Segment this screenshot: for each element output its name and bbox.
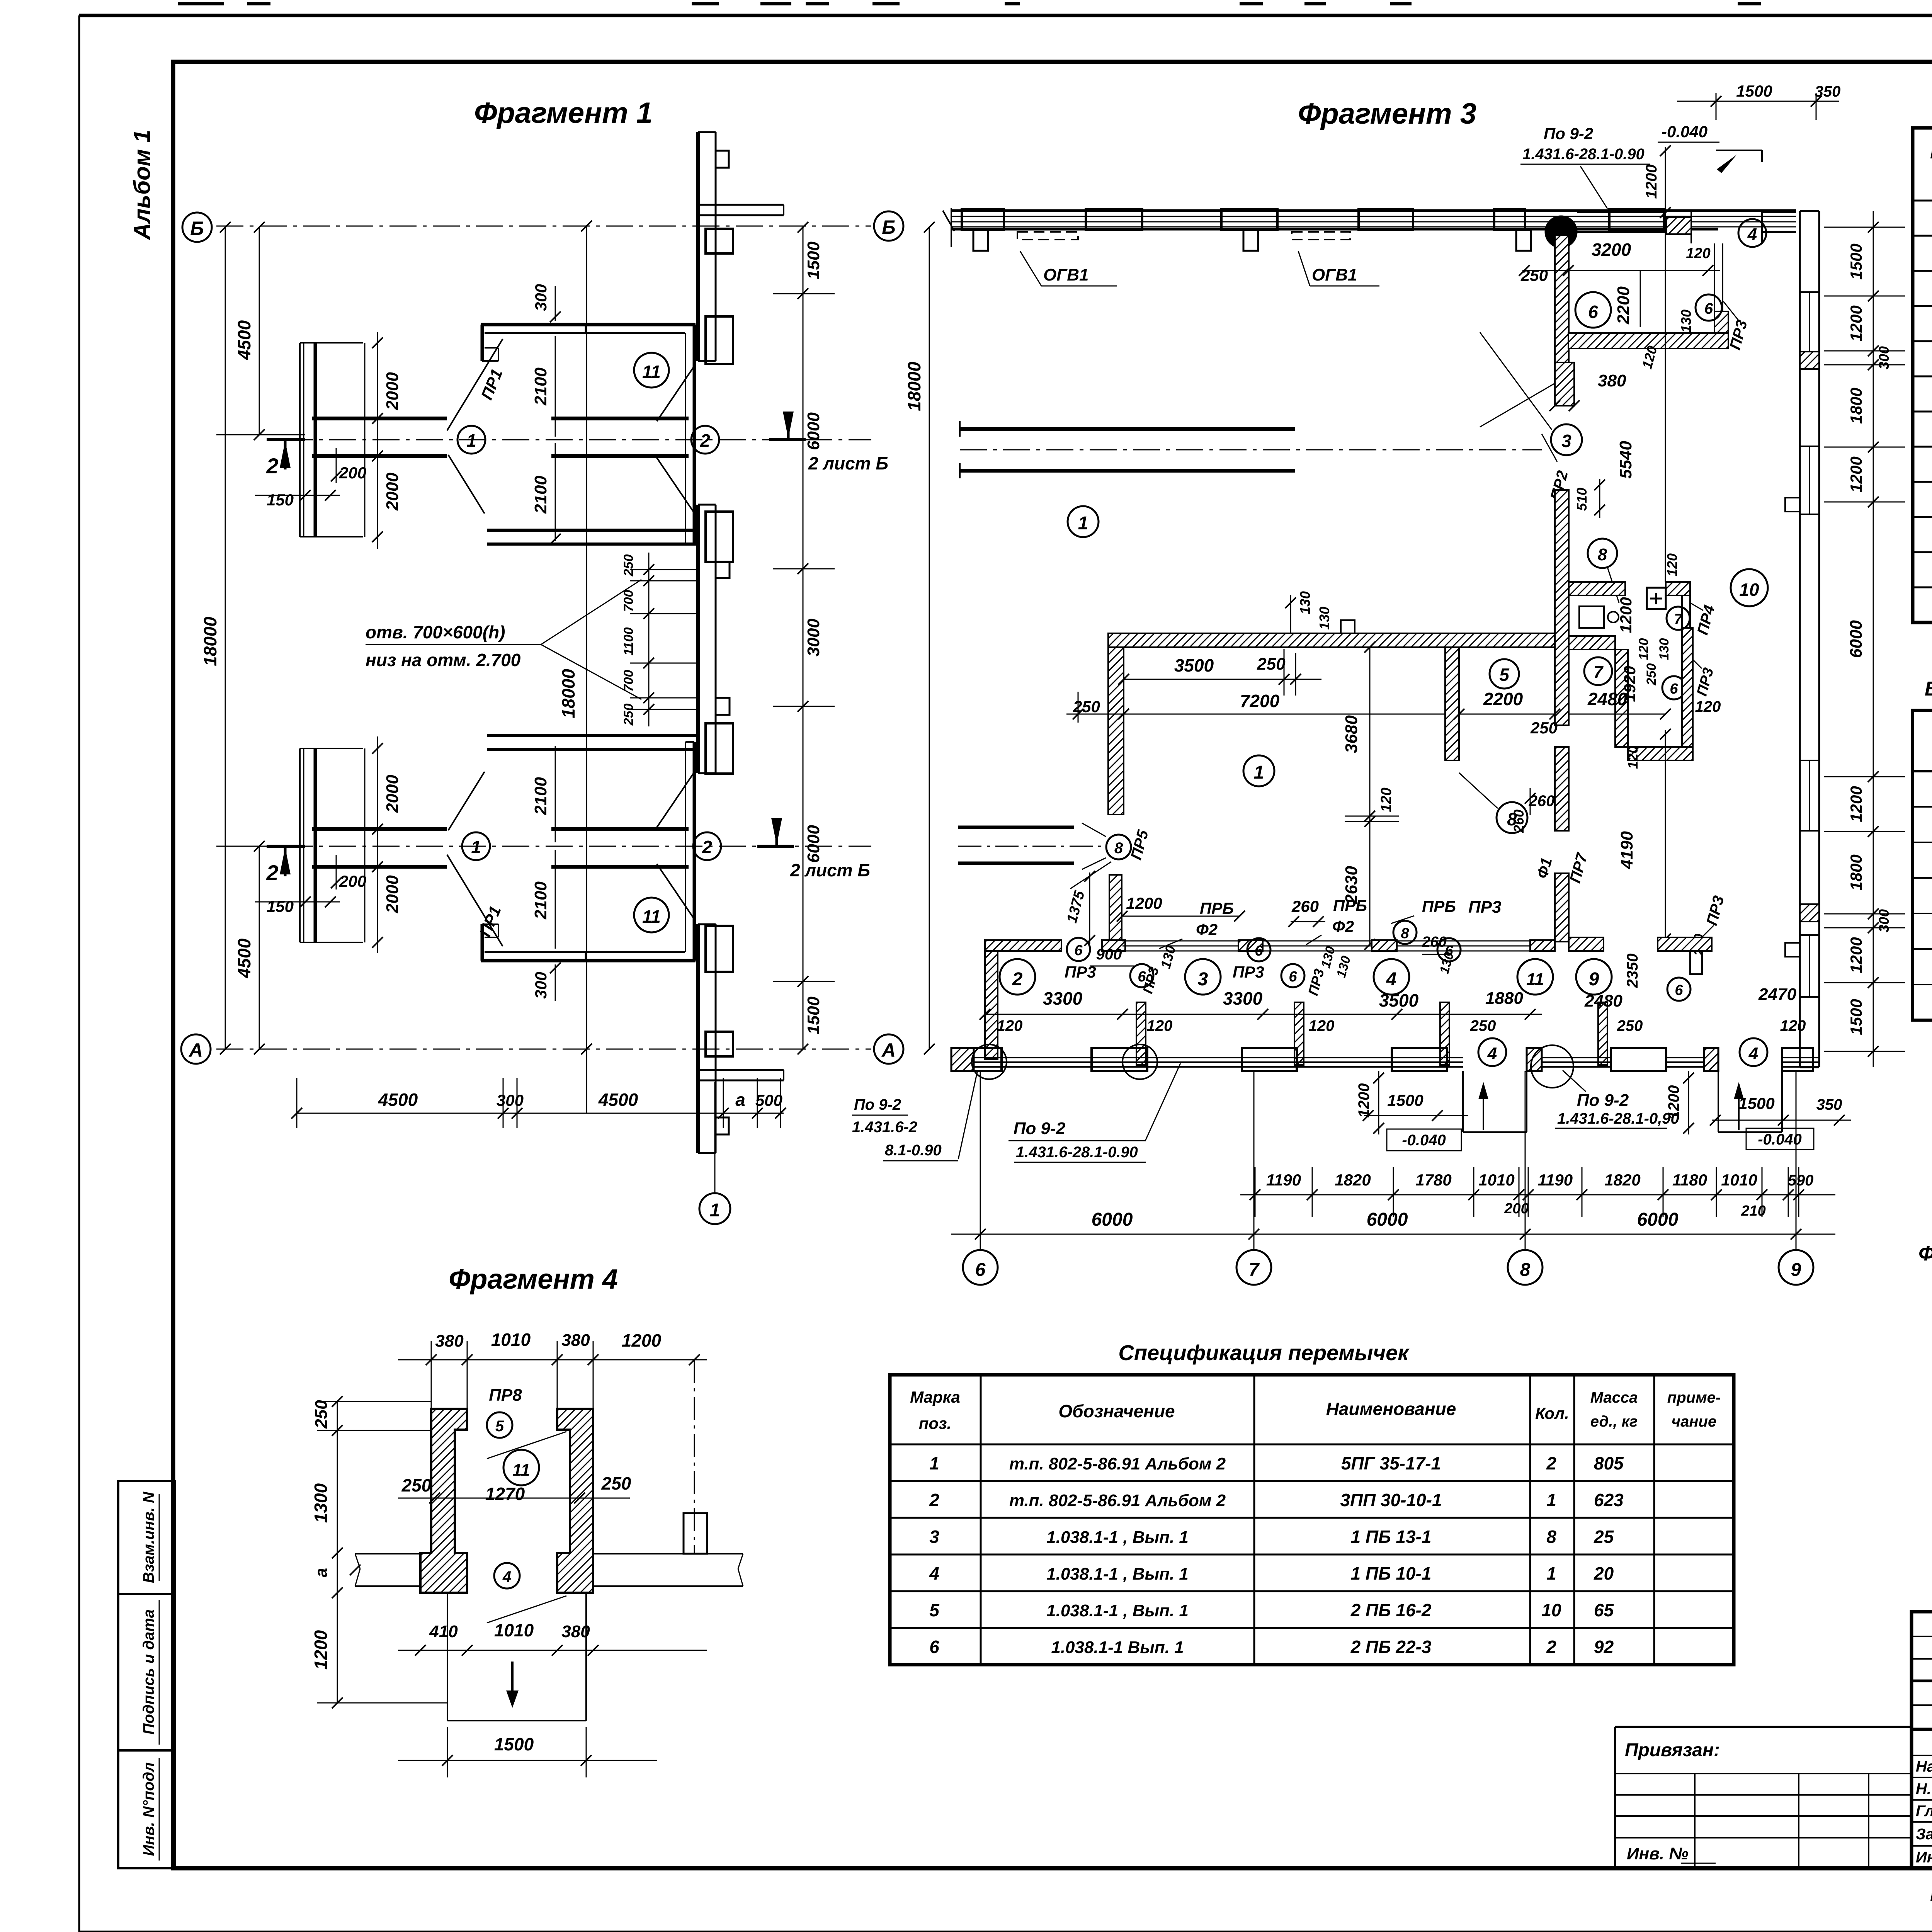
svg-text:120: 120 bbox=[1686, 245, 1710, 262]
bottom dim line 2 fragment 3 bbox=[951, 1209, 1835, 1240]
dim stack 250-700-1100-700-250 bbox=[621, 553, 698, 726]
svg-text:1: 1 bbox=[1254, 762, 1264, 783]
corridor walls axis 3 bbox=[960, 421, 1295, 478]
svg-text:18000: 18000 bbox=[904, 362, 924, 411]
leader По 9-2 bottom mid bbox=[1555, 1070, 1679, 1128]
svg-text:2 ПБ 22-3: 2 ПБ 22-3 bbox=[1350, 1637, 1432, 1657]
svg-text:1270: 1270 bbox=[485, 1484, 525, 1504]
svg-text:3500: 3500 bbox=[1379, 990, 1419, 1010]
wall left exterior bottom unit bbox=[300, 748, 363, 942]
svg-text:6: 6 bbox=[929, 1637, 939, 1657]
svg-text:11: 11 bbox=[512, 1461, 530, 1480]
svg-text:120: 120 bbox=[1625, 746, 1641, 769]
svg-text:ОГВ1: ОГВ1 bbox=[1043, 265, 1088, 284]
svg-text:1100: 1100 bbox=[621, 627, 636, 655]
svg-text:6: 6 bbox=[1675, 982, 1683, 998]
svg-text:Б: Б bbox=[882, 216, 895, 238]
svg-text:380: 380 bbox=[561, 1331, 590, 1350]
dim 1200 rotated top right bbox=[1643, 145, 1671, 218]
dim 4500 top left bbox=[216, 222, 305, 440]
svg-text:Фрагмент 4: Фрагмент 4 bbox=[449, 1264, 618, 1295]
svg-text:9: 9 bbox=[1791, 1260, 1801, 1280]
dim 3500 250 room 1 bbox=[1118, 649, 1321, 696]
room 3 circle bbox=[1185, 959, 1221, 995]
frag4 left pier bbox=[420, 1409, 467, 1593]
svg-text:2480: 2480 bbox=[1584, 992, 1622, 1010]
svg-text:4190: 4190 bbox=[1617, 831, 1636, 869]
svg-text:250: 250 bbox=[1470, 1017, 1496, 1034]
room 6 top door jamb bbox=[1667, 217, 1723, 311]
svg-text:3000: 3000 bbox=[804, 619, 823, 656]
svg-text:4500: 4500 bbox=[378, 1090, 418, 1110]
svg-text:7200: 7200 bbox=[1240, 691, 1280, 711]
svg-text:9: 9 bbox=[1589, 969, 1599, 990]
dim 3200 120 room 6 bbox=[1519, 240, 1720, 284]
label cluster ПР3 260 130 right bbox=[1422, 898, 1501, 975]
frag4 label ПР8 bbox=[489, 1386, 522, 1405]
svg-text:1200: 1200 bbox=[1355, 1083, 1372, 1118]
svg-text:250: 250 bbox=[312, 1400, 331, 1429]
svg-text:7: 7 bbox=[1594, 663, 1604, 682]
fragment 3 title bbox=[1298, 97, 1476, 130]
svg-text:1.431.6-28.1-0.90: 1.431.6-28.1-0.90 bbox=[1016, 1144, 1138, 1161]
svg-text:2100: 2100 bbox=[531, 367, 550, 406]
svg-text:2470: 2470 bbox=[1758, 985, 1796, 1004]
central vertical wall middle bbox=[1555, 490, 1569, 725]
leader text отв 700x600 bbox=[366, 580, 641, 699]
room 5 circle bbox=[1490, 659, 1519, 689]
svg-text:1880: 1880 bbox=[1485, 989, 1523, 1008]
central vertical wall upper bbox=[1555, 235, 1569, 383]
svg-text:2 лист Б: 2 лист Б bbox=[790, 860, 870, 880]
axis B line bbox=[216, 226, 871, 227]
bottom dim line fragment 1 bbox=[291, 1078, 786, 1128]
dim 4500 bottom left bbox=[216, 841, 305, 1054]
svg-text:2200: 2200 bbox=[1614, 286, 1633, 325]
svg-text:8: 8 bbox=[1598, 545, 1607, 564]
svg-text:2000: 2000 bbox=[383, 775, 402, 813]
svg-text:3300: 3300 bbox=[1043, 988, 1083, 1009]
room circle 1 upper bbox=[1068, 506, 1099, 537]
svg-text:4500: 4500 bbox=[598, 1090, 638, 1110]
svg-text:Ф2: Ф2 bbox=[1196, 920, 1218, 939]
svg-text:11: 11 bbox=[642, 906, 661, 927]
svg-text:2: 2 bbox=[266, 861, 278, 885]
svg-text:120: 120 bbox=[1664, 553, 1680, 577]
svg-text:8: 8 bbox=[1546, 1527, 1556, 1547]
svg-text:5540: 5540 bbox=[1616, 441, 1635, 479]
svg-text:2: 2 bbox=[1012, 969, 1023, 990]
dim line 2000/2000 top unit bbox=[365, 332, 402, 549]
svg-text:1200: 1200 bbox=[1847, 456, 1865, 492]
svg-text:1500: 1500 bbox=[1847, 999, 1865, 1035]
svg-text:130: 130 bbox=[1678, 310, 1694, 333]
table vedomost proemov grid bbox=[1912, 710, 1932, 1020]
inner block top wall room 1 bbox=[1108, 633, 1555, 647]
dim 5540 rotated bbox=[1616, 216, 1665, 572]
wall bottom right corner piece bbox=[698, 1070, 784, 1080]
dims 120 row bottom bbox=[997, 1017, 1806, 1034]
svg-text:1010: 1010 bbox=[491, 1330, 531, 1350]
leader По 9-2 bottom far left partial bbox=[883, 1070, 978, 1161]
labels Ф1 ПР7 bbox=[1534, 851, 1591, 885]
svg-text:4: 4 bbox=[1747, 225, 1757, 244]
svg-text:Инв. N°подл: Инв. N°подл bbox=[140, 1762, 157, 1856]
table spec openings grid bbox=[1913, 128, 1932, 622]
leader По 9-2 bottom left bbox=[1009, 1063, 1180, 1162]
dim 2100 upper bottom unit bbox=[531, 746, 555, 842]
axis circle 7 bbox=[1236, 1250, 1271, 1285]
svg-text:130: 130 bbox=[1316, 607, 1332, 630]
bottom inner band windows bbox=[1122, 941, 1530, 951]
door leader room 8 circle lower bbox=[1459, 773, 1554, 833]
axis 3 dash line bbox=[960, 449, 1542, 451]
leader По 9-2 top fragment 3 bbox=[1520, 124, 1650, 209]
section arrow 2 лист Б bottom bbox=[757, 818, 870, 880]
svg-text:4: 4 bbox=[502, 1568, 511, 1585]
svg-text:250: 250 bbox=[1520, 266, 1548, 284]
bottom inner wall band segments bbox=[985, 940, 1555, 951]
svg-text:2000: 2000 bbox=[383, 473, 402, 511]
section arrow 2 bottom left bbox=[266, 846, 305, 885]
svg-text:Кол.: Кол. bbox=[1535, 1404, 1569, 1422]
label ПР1 top bbox=[447, 339, 506, 514]
inner block right wall bbox=[1445, 647, 1459, 760]
svg-text:300: 300 bbox=[1876, 909, 1892, 932]
axis A line bbox=[216, 1049, 871, 1050]
svg-text:6: 6 bbox=[975, 1260, 986, 1280]
wall left exterior top unit bbox=[300, 343, 363, 537]
svg-text:300: 300 bbox=[1876, 346, 1892, 369]
sanitary fixture bbox=[1579, 606, 1619, 628]
album label Альбом 1 bbox=[129, 130, 155, 241]
svg-text:Фрагмент 3: Фрагмент 3 bbox=[1298, 97, 1476, 130]
label ПР2 bbox=[1542, 434, 1571, 502]
svg-text:700: 700 bbox=[621, 590, 636, 612]
dim 1920 rotated bbox=[1621, 666, 1639, 702]
dim ticks room row bbox=[980, 1009, 1542, 1020]
table spec peremychek title bbox=[1118, 1340, 1410, 1365]
svg-text:1.038.1-1 , Вып. 1: 1.038.1-1 , Вып. 1 bbox=[1046, 1565, 1189, 1583]
svg-text:Инв. №: Инв. № bbox=[1627, 1844, 1689, 1863]
title block outer bbox=[1912, 1612, 1932, 1868]
svg-text:1500: 1500 bbox=[494, 1734, 534, 1754]
svg-text:ПР3: ПР3 bbox=[1233, 963, 1264, 981]
svg-text:По 9-2: По 9-2 bbox=[1544, 124, 1593, 143]
svg-text:1500: 1500 bbox=[1847, 243, 1865, 279]
door diagonals near axis 2 bottom unit bbox=[657, 773, 694, 918]
svg-text:10: 10 bbox=[1739, 580, 1759, 600]
frag4 dim 1270 250 250 bbox=[398, 1473, 631, 1504]
dim 1500 350 top bbox=[1677, 82, 1840, 120]
svg-text:-0.040: -0.040 bbox=[1402, 1132, 1446, 1149]
svg-text:150: 150 bbox=[267, 897, 294, 915]
svg-text:1: 1 bbox=[1546, 1563, 1556, 1583]
svg-text:350: 350 bbox=[1815, 83, 1841, 100]
dim 2200 room 5 bbox=[1454, 689, 1560, 719]
wall top right corner piece bbox=[698, 205, 784, 215]
dim 1200 rotated room 8 bbox=[1617, 597, 1635, 633]
svg-text:3ПП 30-10-1: 3ПП 30-10-1 bbox=[1340, 1490, 1442, 1510]
svg-text:6: 6 bbox=[1255, 943, 1263, 959]
svg-text:1190: 1190 bbox=[1266, 1171, 1301, 1189]
dim 120 rotated above room8 bbox=[1664, 549, 1680, 582]
svg-text:250: 250 bbox=[401, 1475, 432, 1495]
svg-text:ПРБ: ПРБ bbox=[1333, 896, 1367, 915]
right wall small bumps fragment 1 bbox=[716, 151, 730, 1134]
svg-text:1190: 1190 bbox=[1538, 1171, 1573, 1189]
svg-text:10: 10 bbox=[1541, 1600, 1561, 1620]
frag4 dim 1500 bbox=[398, 1727, 657, 1777]
svg-text:590: 590 bbox=[1788, 1172, 1814, 1189]
circle 6 room 8 door bbox=[1662, 676, 1685, 699]
svg-text:1 ПБ 13-1: 1 ПБ 13-1 bbox=[1351, 1527, 1432, 1547]
room 9 circle bbox=[1576, 959, 1612, 995]
dim 300 bottom unit bbox=[532, 963, 561, 1001]
axis 1 line bottom unit bbox=[286, 846, 871, 847]
section arrow 2 лист Б top bbox=[769, 412, 888, 473]
top right door gap and corner bbox=[1691, 212, 1796, 243]
svg-text:120: 120 bbox=[997, 1017, 1023, 1034]
circle 8 label ПРБ mid bbox=[1391, 897, 1456, 944]
axis circle A left bbox=[181, 1034, 211, 1064]
svg-text:4: 4 bbox=[929, 1563, 939, 1583]
label ПР3 top right bbox=[1723, 301, 1751, 352]
svg-text:1500: 1500 bbox=[1736, 82, 1772, 100]
svg-text:1200: 1200 bbox=[1643, 165, 1660, 199]
svg-text:260: 260 bbox=[1422, 934, 1446, 950]
bottom outer wall band windows bbox=[974, 1058, 1819, 1067]
svg-text:1820: 1820 bbox=[1335, 1171, 1371, 1189]
svg-text:1: 1 bbox=[1546, 1490, 1556, 1510]
room 11 circle bbox=[1517, 959, 1553, 995]
svg-text:Наименование: Наименование bbox=[1326, 1399, 1456, 1419]
room 6 small circle bbox=[1696, 294, 1722, 321]
dim 18000 left bbox=[200, 222, 231, 1054]
svg-text:6: 6 bbox=[1074, 942, 1083, 959]
svg-text:11: 11 bbox=[1526, 970, 1544, 989]
room circle 11 bottom bbox=[634, 898, 669, 932]
door diagonals near axis 2 top unit bbox=[657, 367, 694, 512]
svg-text:4500: 4500 bbox=[234, 938, 254, 978]
svg-text:4500: 4500 bbox=[234, 320, 254, 360]
room 7 circle bbox=[1584, 657, 1612, 685]
svg-text:1200: 1200 bbox=[1847, 305, 1865, 341]
svg-text:6000: 6000 bbox=[1637, 1209, 1679, 1230]
door circle 4 bottom right bbox=[1740, 1038, 1767, 1066]
svg-text:2: 2 bbox=[266, 454, 278, 478]
door circles 6 bottom row bbox=[1067, 938, 1690, 1001]
svg-text:623: 623 bbox=[1594, 1490, 1624, 1510]
fragment 1 title bbox=[474, 97, 653, 129]
svg-text:1.038.1-1 , Вып. 1: 1.038.1-1 , Вып. 1 bbox=[1046, 1601, 1189, 1620]
svg-text:-0.040: -0.040 bbox=[1662, 122, 1708, 141]
small dims 120 130 250 bbox=[1636, 638, 1672, 686]
label cluster 900 ПР3 bbox=[1065, 946, 1162, 995]
svg-text:1.038.1-1 , Вып. 1: 1.038.1-1 , Вып. 1 bbox=[1046, 1528, 1189, 1547]
svg-text:1500: 1500 bbox=[1387, 1091, 1423, 1109]
right dim column inner fragment 3 bbox=[1824, 211, 1905, 1067]
svg-text:2: 2 bbox=[929, 1490, 939, 1510]
svg-text:2: 2 bbox=[1546, 1453, 1556, 1473]
svg-text:1.431.6-28.1-0,90: 1.431.6-28.1-0,90 bbox=[1557, 1110, 1679, 1127]
svg-text:3200: 3200 bbox=[1592, 240, 1631, 260]
inner block small pilaster top bbox=[1285, 591, 1355, 633]
svg-text:250: 250 bbox=[601, 1473, 631, 1493]
svg-text:120: 120 bbox=[1378, 787, 1395, 812]
frag4 circle 11 bbox=[487, 1432, 566, 1485]
svg-text:2: 2 bbox=[702, 837, 712, 857]
svg-text:т.п. 802-5-86.91 Альбом 2: т.п. 802-5-86.91 Альбом 2 bbox=[1009, 1454, 1226, 1473]
sidebar box Инв. N подл bbox=[118, 1750, 175, 1868]
frag4 pilaster on wall bbox=[684, 1513, 707, 1554]
dim 150 bottom left bbox=[255, 896, 340, 915]
right outer wall fragment 1 bbox=[698, 132, 716, 1153]
svg-text:2 лист Б: 2 лист Б bbox=[808, 453, 888, 473]
svg-text:Альбом 1: Альбом 1 bbox=[129, 130, 155, 241]
axis circle B right bbox=[874, 211, 903, 241]
trough walls bottom unit bbox=[487, 736, 698, 750]
title block staff labels bbox=[1916, 1733, 1932, 1866]
wall 1375 vertical piece bbox=[1064, 862, 1122, 946]
svg-text:120: 120 bbox=[1309, 1017, 1335, 1034]
section arrow 2 top left bbox=[266, 440, 305, 478]
svg-text:1200: 1200 bbox=[1126, 894, 1162, 912]
svg-text:6000: 6000 bbox=[1092, 1209, 1133, 1230]
svg-text:1: 1 bbox=[929, 1453, 939, 1473]
svg-text:низ на отм. 2.700: низ на отм. 2.700 bbox=[366, 650, 521, 670]
svg-text:1200: 1200 bbox=[622, 1330, 662, 1350]
right wall bumps bbox=[1785, 498, 1800, 957]
dim 200 top left bbox=[331, 448, 366, 483]
level mark -0.040 top bbox=[1658, 122, 1719, 142]
svg-text:1500: 1500 bbox=[804, 997, 823, 1034]
svg-text:а: а bbox=[312, 1568, 331, 1577]
vertical dim 3680 120 2630 bbox=[1342, 642, 1399, 950]
svg-text:1.431.6-28.1-0.90: 1.431.6-28.1-0.90 bbox=[1522, 146, 1645, 163]
svg-text:1200: 1200 bbox=[311, 1630, 331, 1670]
dims bottom room row bbox=[1043, 985, 1797, 1010]
svg-text:250: 250 bbox=[1530, 719, 1558, 737]
label ПР3 far right bottom bbox=[1692, 894, 1728, 956]
svg-text:25: 25 bbox=[1594, 1527, 1614, 1547]
axis leader lines bottom bbox=[980, 1071, 1796, 1250]
svg-text:т.п. 802-5-86.91 Альбом 2: т.п. 802-5-86.91 Альбом 2 bbox=[1009, 1491, 1226, 1510]
label cluster 1200 ПРБ Ф2 left bbox=[1117, 894, 1245, 949]
room 6 top: bottom wall bbox=[1568, 311, 1728, 349]
OGV1 dashed box left bbox=[1017, 232, 1117, 286]
svg-text:805: 805 bbox=[1594, 1453, 1624, 1473]
bottom dim line 1 fragment 3 bbox=[1240, 1167, 1835, 1219]
svg-text:11: 11 bbox=[642, 362, 661, 382]
privyazan block bbox=[1615, 1727, 1912, 1868]
frag4 right pier bbox=[557, 1409, 593, 1593]
svg-text:18000: 18000 bbox=[558, 669, 578, 718]
svg-text:2100: 2100 bbox=[531, 476, 550, 514]
axis 1 line top unit bbox=[286, 439, 871, 440]
svg-text:120: 120 bbox=[1147, 1017, 1173, 1034]
svg-text:200: 200 bbox=[339, 872, 366, 890]
svg-text:1200: 1200 bbox=[1847, 937, 1865, 973]
svg-text:Взам.инв. N: Взам.инв. N bbox=[140, 1492, 157, 1583]
svg-text:2: 2 bbox=[1546, 1637, 1556, 1657]
svg-text:ед., кг: ед., кг bbox=[1590, 1413, 1638, 1430]
svg-text:1780: 1780 bbox=[1415, 1171, 1451, 1189]
right outer wall fragment 3 bbox=[1800, 211, 1819, 1067]
dim 18000 left fragment 3 bbox=[904, 222, 935, 1054]
svg-text:2350: 2350 bbox=[1624, 954, 1641, 988]
frag4 axis dash line bbox=[694, 1360, 695, 1554]
svg-text:250: 250 bbox=[1644, 663, 1659, 686]
svg-text:1200: 1200 bbox=[1847, 786, 1865, 822]
svg-text:1800: 1800 bbox=[1847, 388, 1865, 423]
svg-text:380: 380 bbox=[435, 1332, 464, 1350]
svg-text:Подпись и дата: Подпись и дата bbox=[140, 1609, 157, 1735]
svg-text:1: 1 bbox=[710, 1200, 720, 1221]
frag4 circle 5 bbox=[487, 1412, 512, 1438]
svg-text:Фрамуги Ф1 и Ф2 установит: Фрамуги Ф1 и Ф2 установить на отм. 1.500 bbox=[1918, 1242, 1932, 1265]
svg-text:300: 300 bbox=[532, 972, 550, 999]
axis circle 2 top bbox=[691, 426, 719, 454]
svg-text:ПР8: ПР8 bbox=[489, 1386, 522, 1405]
svg-text:Фрагмент 1: Фрагмент 1 bbox=[474, 97, 653, 129]
svg-text:1.038.1-1 Вып. 1: 1.038.1-1 Вып. 1 bbox=[1051, 1638, 1184, 1657]
svg-text:6000: 6000 bbox=[804, 825, 823, 863]
sidebar box Взам. инв. N bbox=[118, 1481, 175, 1594]
svg-text:Н. контр.: Н. контр. bbox=[1916, 1781, 1932, 1798]
svg-text:6: 6 bbox=[1704, 300, 1713, 317]
svg-text:А: А bbox=[881, 1039, 896, 1061]
svg-text:Масса: Масса bbox=[1590, 1389, 1638, 1406]
svg-text:410: 410 bbox=[429, 1622, 458, 1641]
title block staff rows bbox=[1912, 1755, 1932, 1846]
svg-text:1 ПБ 10-1: 1 ПБ 10-1 bbox=[1351, 1563, 1432, 1583]
svg-text:1920: 1920 bbox=[1621, 666, 1639, 702]
axis circle A right bbox=[874, 1034, 903, 1064]
svg-text:1500: 1500 bbox=[1738, 1094, 1774, 1112]
axis circle 1 top bbox=[457, 426, 485, 454]
svg-text:1010: 1010 bbox=[1478, 1171, 1514, 1189]
room 10 circle bbox=[1731, 569, 1768, 606]
svg-text:120: 120 bbox=[1695, 698, 1721, 715]
circle 7 room bbox=[1667, 607, 1690, 630]
room circle 1 lower bbox=[1243, 755, 1274, 786]
svg-text:отв. 700×600(h): отв. 700×600(h) bbox=[366, 622, 505, 642]
axis circle B left bbox=[182, 213, 212, 242]
svg-text:380: 380 bbox=[1598, 371, 1626, 390]
svg-text:250: 250 bbox=[1073, 697, 1100, 716]
labels 130 120 room 6 bbox=[1639, 310, 1694, 371]
svg-text:300: 300 bbox=[532, 284, 550, 311]
axis circle 2 bottom bbox=[693, 832, 721, 860]
svg-text:Б: Б bbox=[190, 218, 204, 239]
svg-text:Зав. гр.: Зав. гр. bbox=[1916, 1826, 1932, 1843]
top wall band fragment 3 bbox=[943, 208, 1796, 247]
svg-text:Обозначение: Обозначение bbox=[1058, 1401, 1175, 1421]
svg-text:900: 900 bbox=[1096, 946, 1122, 963]
svg-text:500: 500 bbox=[755, 1091, 782, 1109]
right dim column fragment 1 bbox=[773, 222, 835, 1054]
svg-text:2: 2 bbox=[700, 430, 710, 451]
svg-text:3300: 3300 bbox=[1223, 988, 1263, 1009]
svg-text:Спецификация перемычек: Спецификация перемычек bbox=[1118, 1340, 1410, 1365]
svg-text:250: 250 bbox=[1617, 1017, 1643, 1034]
frag4 bottom opening walls bbox=[447, 1593, 586, 1721]
svg-text:4: 4 bbox=[1748, 1044, 1758, 1063]
ramp door right fragment 3 bbox=[1710, 1071, 1851, 1150]
frag4 circle 4 bbox=[487, 1563, 566, 1623]
svg-text:чание: чание bbox=[1672, 1413, 1716, 1430]
